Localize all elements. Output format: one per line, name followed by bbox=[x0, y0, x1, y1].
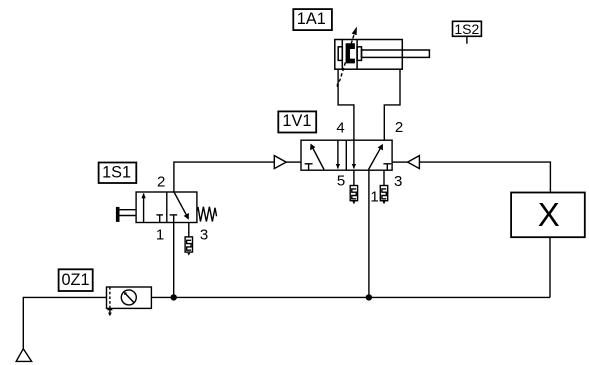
label 0Z1 bbox=[59, 269, 93, 291]
wire cylinder right port to valve port 2 bbox=[384, 69, 400, 140]
valve 1V1 right pilot triangle bbox=[408, 156, 420, 169]
label 1A1 bbox=[293, 9, 332, 30]
valve 1V1 body (5/2-way) bbox=[301, 140, 392, 170]
air supply triangle bbox=[16, 349, 31, 362]
valve 1V1 port labels bbox=[336, 119, 403, 205]
svg-text:1: 1 bbox=[156, 226, 164, 243]
valve 1V1 left box flow path 1-4 bbox=[310, 144, 324, 170]
label 1S1 bbox=[99, 163, 137, 184]
valve 1V1 right box flow path 1-2 bbox=[369, 144, 384, 170]
svg-text:2: 2 bbox=[157, 174, 165, 191]
junction dot at 1V1 port 1 bbox=[366, 294, 372, 300]
valve 1V1 left box flow path 2-3 bbox=[336, 140, 340, 168]
label 1S2 (proximity switch) bbox=[453, 21, 482, 37]
valve 1V1 divider bbox=[345, 140, 347, 170]
wire cylinder left port to valve port 4 bbox=[338, 69, 354, 140]
cylinder 1A1 piston rod bbox=[362, 50, 430, 57]
wire 1V1 port 1 down to bus bbox=[368, 170, 370, 297]
junction dot at 1S1 port 1 bbox=[171, 294, 177, 300]
svg-text:1V1: 1V1 bbox=[282, 112, 311, 130]
svg-text:5: 5 bbox=[337, 173, 345, 190]
wire valve to right pilot bbox=[392, 161, 408, 163]
valve 1S1 divider bbox=[166, 192, 168, 223]
valve 1S1 plunger actuator bbox=[117, 208, 137, 222]
valve 1V1 left pilot triangle bbox=[274, 156, 286, 169]
svg-text:1S1: 1S1 bbox=[102, 164, 131, 182]
wire 1S2 position marker bbox=[466, 36, 468, 43]
valve 1S1 right box blocked port 1 bbox=[170, 215, 178, 223]
silencer at 1S1 port 3 bbox=[185, 223, 192, 256]
valve 1S1 left box blocked port bbox=[156, 215, 163, 223]
svg-text:0Z1: 0Z1 bbox=[61, 271, 89, 289]
valve 1S1 return spring bbox=[197, 207, 217, 222]
cylinder 1A1 front cushioning piston bbox=[357, 47, 361, 61]
wire left pilot to valve bbox=[286, 161, 301, 163]
label 1V1 bbox=[278, 111, 316, 132]
wire bottom bus bbox=[151, 296, 550, 298]
cylinder 1A1 magnet on piston bbox=[346, 43, 355, 63]
cylinder 1A1 rear cushioning piston bbox=[338, 47, 342, 61]
svg-text:3: 3 bbox=[394, 173, 402, 190]
cylinder 1A1 cushioning adjust arrow bbox=[337, 27, 357, 88]
wire X box down to bus bbox=[549, 237, 551, 297]
silencer at 1V1 port 5 bbox=[350, 170, 357, 204]
svg-text:1S2: 1S2 bbox=[454, 21, 479, 37]
service unit 0Z1 condensate drain bbox=[109, 308, 111, 313]
valve 1S1 port labels bbox=[156, 174, 208, 244]
svg-text:1: 1 bbox=[370, 189, 378, 206]
wire 1S1 port 1 down to bus bbox=[173, 223, 175, 298]
component X box bbox=[511, 193, 585, 238]
valve 1S1 right box flow path 2-3 bbox=[174, 192, 189, 220]
wire 1V1 right pilot to X box bbox=[419, 162, 550, 192]
svg-text:1A1: 1A1 bbox=[297, 10, 326, 28]
wire air supply to service unit bbox=[23, 297, 106, 348]
service unit 0Z1 bbox=[107, 287, 152, 316]
svg-text:4: 4 bbox=[336, 120, 344, 137]
svg-text:3: 3 bbox=[200, 227, 208, 244]
silencer at 1V1 port 3 bbox=[380, 170, 387, 204]
svg-text:X: X bbox=[538, 196, 560, 233]
valve 1S1 body (3/2-way) bbox=[136, 192, 197, 223]
svg-text:2: 2 bbox=[395, 119, 403, 136]
cylinder 1A1 body bbox=[335, 40, 430, 70]
valve 1S1 left box flow path 1-2 bbox=[141, 193, 145, 223]
wire 1S1 port 2 to 1V1 left pilot bbox=[174, 162, 274, 192]
valve 1V1 left box blocked port bbox=[305, 164, 313, 170]
cylinder 1A1 piston faces bbox=[341, 40, 343, 70]
valve 1V1 right box flow path 4-5 bbox=[352, 140, 356, 168]
valve 1V1 right box blocked port 3 bbox=[383, 164, 391, 170]
